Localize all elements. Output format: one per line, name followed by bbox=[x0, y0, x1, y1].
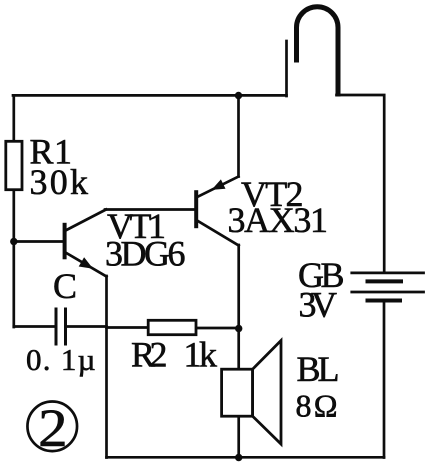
wire R2 right bbox=[197, 327, 239, 330]
svg-text:3DG6: 3DG6 bbox=[105, 234, 188, 274]
battery GB long plate 2 bbox=[352, 291, 424, 294]
resistor R2 bbox=[148, 320, 196, 334]
battery GB short plate 1 bbox=[368, 279, 402, 283]
svg-text:3AX31: 3AX31 bbox=[228, 200, 331, 240]
battery GB long plate 1 bbox=[352, 271, 424, 274]
wire left rail upper bbox=[12, 95, 15, 140]
wire speaker bottom bbox=[237, 418, 240, 458]
svg-text:BL: BL bbox=[297, 349, 343, 389]
transistor VT1 base bar bbox=[63, 225, 67, 257]
svg-text:R2: R2 bbox=[131, 335, 170, 375]
node R2 right junction bbox=[235, 325, 242, 332]
wire VT2 collector vertical to speaker bbox=[237, 245, 240, 369]
svg-text:8Ω: 8Ω bbox=[296, 388, 341, 424]
transistor VT1 emitter lead bbox=[66, 253, 107, 277]
wire left rail lower bbox=[12, 192, 15, 328]
wire cap wire right bbox=[67, 325, 107, 328]
figure number circle bbox=[27, 402, 77, 452]
wire cap wire left bbox=[14, 325, 55, 328]
svg-text:30k: 30k bbox=[30, 162, 91, 202]
wire arch to battery top bbox=[337, 95, 385, 272]
node top rail junction bbox=[235, 92, 242, 99]
wire right rail bbox=[383, 301, 386, 458]
svg-text:1k: 1k bbox=[184, 335, 220, 375]
wire VT1 emitter vertical bbox=[105, 276, 108, 458]
transistor VT1 collector lead bbox=[66, 210, 107, 231]
svg-text:0. 1µ: 0. 1µ bbox=[26, 342, 98, 377]
svg-text:C: C bbox=[53, 266, 80, 306]
transistor VT1 emitter arrow bbox=[79, 257, 93, 268]
transistor VT2 base bar bbox=[194, 192, 198, 226]
wire VT2 emitter vertical bbox=[237, 96, 240, 177]
battery GB short plate 2 bbox=[368, 299, 401, 303]
wire top rail bbox=[13, 94, 287, 97]
wire R2 left bbox=[107, 326, 148, 329]
transistor VT2 collector lead bbox=[198, 221, 239, 246]
probe electrode thin bbox=[285, 41, 288, 96]
speaker BL coil box bbox=[222, 369, 253, 416]
transistor VT2 emitter arrow bbox=[212, 179, 226, 190]
capacitor C plate right bbox=[64, 309, 67, 344]
speaker BL horn bbox=[253, 341, 281, 445]
wire VT1 base wire bbox=[14, 240, 63, 243]
wire bottom rail bbox=[107, 456, 385, 459]
transistor VT2 emitter lead bbox=[198, 177, 239, 197]
node bottom rail junction bbox=[235, 454, 242, 461]
resistor R1 bbox=[6, 141, 22, 189]
svg-text:3V: 3V bbox=[299, 285, 340, 325]
svg-text:2: 2 bbox=[38, 398, 68, 458]
capacitor C plate left bbox=[55, 309, 58, 344]
probe hook thick arch bbox=[297, 7, 339, 94]
wire collector horizontal to VT2 base bbox=[105, 208, 195, 211]
node VT1 base junction bbox=[10, 238, 17, 245]
